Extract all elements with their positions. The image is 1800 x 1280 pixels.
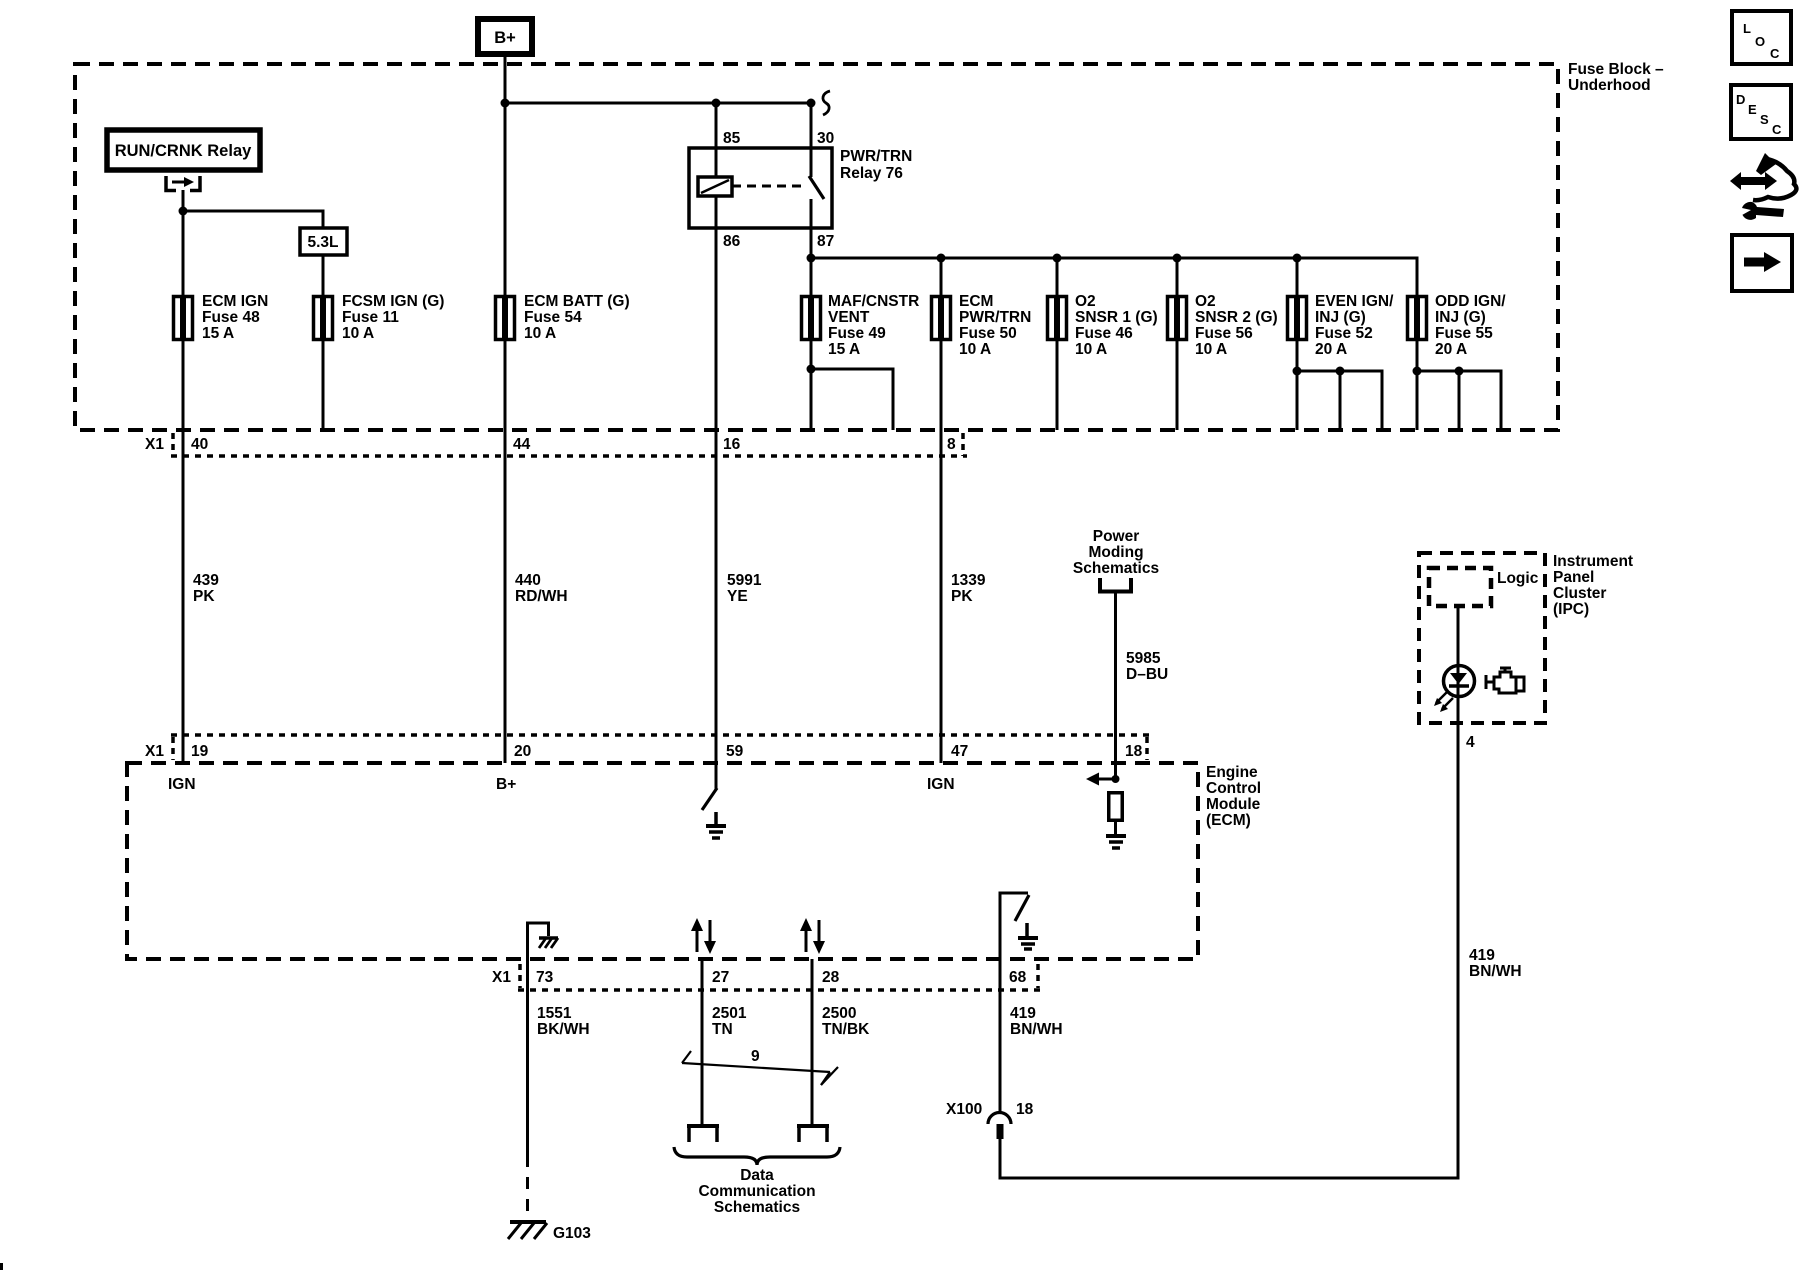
svg-text:419: 419 [1469, 947, 1495, 964]
wire bus to fuse 52 [1296, 258, 1299, 295]
svg-text:G103: G103 [553, 1225, 591, 1242]
wire fuse 11 down to fuse block edge [322, 341, 325, 430]
svg-text:Schematics: Schematics [1073, 560, 1159, 577]
page edge artifact mark [0, 1263, 3, 1270]
RUN/CRNK Relay label box [107, 130, 260, 170]
connector X1 row 3 left bracket [518, 964, 522, 988]
svg-text:40: 40 [191, 436, 208, 453]
svg-text:D: D [1736, 92, 1745, 107]
svg-text:O: O [1755, 34, 1765, 49]
wire bus to fuse 50 [940, 258, 943, 295]
svg-text:18: 18 [1125, 743, 1143, 760]
svg-text:1339: 1339 [951, 572, 986, 589]
svg-text:EVEN IGN/: EVEN IGN/ [1315, 293, 1394, 310]
brace grouping data wires [674, 1147, 840, 1165]
node: bus junction dots [807, 254, 1302, 263]
wire relay pin 87 down to fuse bus [810, 199, 813, 258]
fuse O2 SNSR 1 (G) Fuse 46 10 A [1048, 295, 1067, 341]
svg-text:O2: O2 [1075, 293, 1096, 310]
svg-text:10 A: 10 A [959, 341, 991, 358]
svg-text:IGN: IGN [927, 776, 955, 793]
ECM pin 68 internal switch blade [1015, 895, 1029, 921]
ground G103 chassis symbol [508, 1222, 547, 1239]
Fuse Block label [1568, 61, 1664, 94]
svg-text:Module: Module [1206, 796, 1261, 813]
svg-text:Moding: Moding [1088, 544, 1143, 561]
wire fuse supply bus [811, 258, 1417, 295]
svg-text:Control: Control [1206, 780, 1261, 797]
twisted pair crossing line 9 [682, 1051, 838, 1085]
svg-text:439: 439 [193, 572, 219, 589]
nav icon LOC box [1732, 11, 1791, 64]
terminator on wire 2500 [797, 1126, 829, 1142]
svg-text:Fuse 56: Fuse 56 [1195, 325, 1253, 342]
svg-text:O2: O2 [1195, 293, 1216, 310]
IPC dashed boundary [1419, 553, 1545, 723]
svg-text:9: 9 [751, 1048, 760, 1065]
svg-text:(IPC): (IPC) [1553, 601, 1589, 618]
svg-text:20 A: 20 A [1315, 341, 1347, 358]
svg-text:28: 28 [822, 969, 840, 986]
svg-text:C: C [1772, 122, 1782, 137]
Data Communication Schematics label [698, 1167, 815, 1216]
svg-text:8: 8 [947, 436, 956, 453]
svg-text:73: 73 [536, 969, 554, 986]
connector X1 row 1 left bracket [171, 433, 175, 456]
nav icon harness routing (arrows and wrench) [1730, 153, 1796, 220]
svg-text:X100: X100 [946, 1101, 982, 1118]
terminator on wire 2501 [687, 1126, 719, 1142]
svg-text:BN/WH: BN/WH [1469, 963, 1522, 980]
svg-text:47: 47 [951, 743, 968, 760]
ECM pin 73 internal lead [528, 923, 549, 959]
svg-text:20: 20 [514, 743, 531, 760]
svg-text:PK: PK [193, 588, 215, 605]
svg-text:Fuse 55: Fuse 55 [1435, 325, 1493, 342]
svg-text:Instrument: Instrument [1553, 553, 1633, 570]
svg-text:10 A: 10 A [1195, 341, 1227, 358]
wire 1551 BK/WH from ECM pin 73 [526, 959, 529, 1155]
svg-text:MAF/CNSTR: MAF/CNSTR [828, 293, 919, 310]
Fuse Block - Underhood dashed boundary [75, 64, 1558, 430]
svg-text:BK/WH: BK/WH [537, 1021, 590, 1038]
svg-text:INJ (G): INJ (G) [1435, 309, 1486, 326]
wire fuse 49 outputs [810, 341, 813, 430]
wire fuse 46 down [1056, 341, 1059, 430]
svg-text:86: 86 [723, 233, 741, 250]
wire 2500 TN/BK from ECM pin 28 [811, 959, 814, 1126]
svg-text:59: 59 [726, 743, 744, 760]
wire LED to IPC pin 4 [1457, 697, 1460, 723]
serial data arrows above pin 27 [691, 918, 716, 954]
svg-text:68: 68 [1009, 969, 1027, 986]
svg-text:Schematics: Schematics [714, 1199, 800, 1216]
relay PWR/TRN Relay 76 box [689, 148, 832, 228]
wire branch to 5.3L [183, 211, 323, 228]
svg-text:C: C [1770, 46, 1780, 61]
wire pin 85 down into relay coil [715, 103, 718, 177]
wire 5985 D-BU from off-page reference to ECM pin 18 [1114, 593, 1117, 779]
svg-text:Fuse 50: Fuse 50 [959, 325, 1017, 342]
connector X1 row 3 right bracket [1036, 964, 1040, 988]
svg-text:10 A: 10 A [524, 325, 556, 342]
node: dot at pin 30 feed [807, 99, 816, 108]
relay switch blade [809, 176, 824, 199]
B+ power feed box [478, 19, 532, 54]
node: junction dot at relay pin 85 branch [712, 99, 721, 108]
nav icon next-page arrow box [1732, 235, 1792, 291]
svg-text:30: 30 [817, 130, 834, 147]
svg-text:PK: PK [951, 588, 973, 605]
wire fuse 52 outputs [1296, 341, 1299, 430]
svg-text:16: 16 [723, 436, 741, 453]
fuse ECM PWR/TRN Fuse 50 10 A [932, 295, 951, 341]
ECM pin 68 internal lead [1000, 893, 1028, 959]
svg-text:27: 27 [712, 969, 729, 986]
off-page connector cup symbol [1100, 578, 1131, 592]
svg-text:Fuse 48: Fuse 48 [202, 309, 260, 326]
svg-text:B+: B+ [496, 776, 516, 793]
wire relay pin 86 down (5991 circuit) to ECM pin 59 [715, 196, 718, 789]
wire fuse 56 down [1176, 341, 1179, 430]
svg-text:RD/WH: RD/WH [515, 588, 568, 605]
svg-text:TN: TN [712, 1021, 733, 1038]
svg-text:Cluster: Cluster [1553, 585, 1606, 602]
wire 440 RD/WH from X1 pin 44 to ECM pin 20 [504, 430, 507, 763]
svg-text:Data: Data [740, 1167, 774, 1184]
serial data arrows above pin 28 [800, 918, 825, 954]
connector X1 row 1 dotted line [171, 454, 967, 458]
svg-text:440: 440 [515, 572, 541, 589]
svg-text:ODD IGN/: ODD IGN/ [1435, 293, 1506, 310]
svg-text:X1: X1 [492, 969, 511, 986]
svg-text:L: L [1743, 21, 1751, 36]
svg-text:15 A: 15 A [828, 341, 860, 358]
wire fuse 54 to X1 pin 44 [504, 341, 507, 430]
wire fuse 55 outputs [1416, 341, 1419, 430]
svg-text:2500: 2500 [822, 1005, 856, 1022]
fuse ODD IGN/INJ (G) Fuse 55 20 A [1408, 295, 1427, 341]
wire 419 BN/WH from ECM pin 68 [999, 959, 1002, 1112]
wire 419 BN/WH right label [1469, 947, 1522, 980]
svg-text:10 A: 10 A [1075, 341, 1107, 358]
wire fuse 50 to X1 pin 8 [940, 341, 943, 430]
resistor in ECM on pin 18 [1109, 793, 1123, 821]
RUN/CRNK relay output terminal symbol [166, 176, 200, 191]
wire 2501 TN from ECM pin 27 [701, 959, 704, 1126]
svg-text:419: 419 [1010, 1005, 1036, 1022]
svg-text:D–BU: D–BU [1126, 666, 1168, 683]
svg-text:Underhood: Underhood [1568, 77, 1651, 94]
svg-text:E: E [1748, 102, 1757, 117]
svg-text:ECM IGN: ECM IGN [202, 293, 268, 310]
svg-text:20 A: 20 A [1435, 341, 1467, 358]
svg-text:10 A: 10 A [342, 325, 374, 342]
svg-text:Engine: Engine [1206, 764, 1258, 781]
svg-text:X1: X1 [145, 743, 164, 760]
svg-text:Relay 76: Relay 76 [840, 165, 903, 182]
svg-text:19: 19 [191, 743, 209, 760]
svg-text:PWR/TRN: PWR/TRN [959, 309, 1031, 326]
LED indicator (MIL) [1444, 666, 1475, 698]
fuse ECM BATT (G) Fuse 54 10 A [496, 295, 515, 341]
svg-text:Fuse 49: Fuse 49 [828, 325, 886, 342]
wire B+ feed across to relay pins 85 and 30 [505, 102, 811, 105]
svg-text:Communication: Communication [698, 1183, 815, 1200]
connector X1 row 2 right bracket [1145, 737, 1149, 760]
svg-text:VENT: VENT [828, 309, 870, 326]
wire 439 PK from X1 pin 40 to ECM pin 19 [182, 430, 185, 763]
wire Logic to MIL LED [1457, 606, 1460, 666]
svg-text:85: 85 [723, 130, 741, 147]
connector X1 row 1 right bracket [961, 433, 965, 456]
ECM internal ground below pin 59 switch [706, 812, 726, 838]
wire 419 from X100 to IPC pin 4 [1000, 723, 1458, 1178]
svg-text:Panel: Panel [1553, 569, 1594, 586]
wire pin 30 down to relay switch [810, 103, 813, 177]
svg-text:Fuse Block –: Fuse Block – [1568, 61, 1664, 78]
svg-text:44: 44 [513, 436, 531, 453]
5.3L engine option box [300, 228, 347, 255]
Logic block dashed box [1429, 568, 1491, 606]
ECM pin 18 internal sense arrow [1092, 778, 1115, 781]
wire B+ down to fuse 54 [504, 54, 507, 295]
svg-text:TN/BK: TN/BK [822, 1021, 870, 1038]
wire resistor to internal ground [1114, 822, 1117, 835]
wire bus to fuse 46 [1056, 258, 1059, 295]
wire continuation curl at pin 30 feed [823, 91, 830, 115]
svg-text:5.3L: 5.3L [307, 234, 338, 251]
connector X1 row 2 dotted line [171, 733, 1150, 737]
svg-text:YE: YE [727, 588, 748, 605]
svg-text:Fuse 11: Fuse 11 [342, 309, 399, 326]
wire fuse 48 to X1 pin 40 [182, 341, 185, 430]
relay coil-contact dashed link [732, 185, 806, 188]
fuse FCSM IGN (G) Fuse 11 10 A [314, 295, 333, 341]
LED emission arrows [1434, 692, 1453, 712]
svg-text:BN/WH: BN/WH [1010, 1021, 1063, 1038]
IPC label [1553, 553, 1633, 618]
svg-text:ECM: ECM [959, 293, 993, 310]
svg-text:4: 4 [1466, 734, 1475, 751]
svg-text:Fuse 52: Fuse 52 [1315, 325, 1373, 342]
ECM pin 59 internal switch blade [702, 788, 717, 810]
wire bus to fuse 49 [810, 258, 813, 295]
svg-text:5991: 5991 [727, 572, 762, 589]
svg-text:Fuse 46: Fuse 46 [1075, 325, 1133, 342]
fuse MAF/CNSTR VENT Fuse 49 15 A [802, 295, 821, 341]
svg-text:SNSR 1 (G): SNSR 1 (G) [1075, 309, 1158, 326]
svg-text:1551: 1551 [537, 1005, 572, 1022]
svg-text:Logic: Logic [1497, 570, 1539, 587]
wire bus to fuse 56 [1176, 258, 1179, 295]
svg-text:X1: X1 [145, 436, 164, 453]
connector X1 row 2 left bracket [171, 737, 175, 760]
wire 1551 dashed continuation to G103 [526, 1155, 529, 1224]
connector X1 row 3 dotted line [518, 988, 1041, 992]
svg-text:S: S [1760, 112, 1769, 127]
fuse O2 SNSR 2 (G) Fuse 56 10 A [1168, 295, 1187, 341]
svg-text:15 A: 15 A [202, 325, 234, 342]
relay coil [698, 177, 732, 196]
ECM internal ground below resistor [1106, 836, 1126, 848]
svg-text:RUN/CRNK Relay: RUN/CRNK Relay [115, 142, 252, 160]
svg-text:B+: B+ [494, 29, 516, 47]
svg-text:5985: 5985 [1126, 650, 1161, 667]
check engine icon [1486, 668, 1524, 693]
svg-text:(ECM): (ECM) [1206, 812, 1251, 829]
wire 5991 YE label [727, 572, 762, 605]
wire 5.3L box to fuse 11 [322, 255, 325, 295]
fuse ECM IGN Fuse 48 15 A [174, 295, 193, 341]
svg-text:Fuse 54: Fuse 54 [524, 309, 582, 326]
Power Moding Schematics off-page reference [1073, 528, 1159, 577]
svg-text:Power: Power [1093, 528, 1140, 545]
svg-text:87: 87 [817, 233, 834, 250]
svg-text:FCSM IGN (G): FCSM IGN (G) [342, 293, 444, 310]
ECM internal ground below pin 68 switch [1018, 923, 1038, 949]
svg-text:ECM BATT (G): ECM BATT (G) [524, 293, 630, 310]
nav icon DESC box [1731, 85, 1791, 139]
ECM label [1206, 764, 1261, 829]
connector X100 inline symbol [988, 1113, 1011, 1125]
ECM internal chassis ground above pin 73 [539, 938, 558, 948]
ECM dashed boundary [127, 763, 1198, 959]
svg-text:18: 18 [1016, 1101, 1034, 1118]
wire from RUN/CRNK relay down to fuse 48 [182, 190, 185, 295]
node: junction dot below RUN/CRNK relay [179, 207, 188, 216]
svg-text:SNSR 2 (G): SNSR 2 (G) [1195, 309, 1278, 326]
fuse EVEN IGN/INJ (G) Fuse 52 20 A [1288, 295, 1307, 341]
svg-text:IGN: IGN [168, 776, 196, 793]
node: junction dot on B+ wire [501, 99, 510, 108]
svg-text:2501: 2501 [712, 1005, 747, 1022]
svg-text:INJ (G): INJ (G) [1315, 309, 1366, 326]
svg-text:PWR/TRN: PWR/TRN [840, 148, 912, 165]
wire 1339 PK from X1 pin 8 to ECM pin 47 [940, 430, 943, 763]
